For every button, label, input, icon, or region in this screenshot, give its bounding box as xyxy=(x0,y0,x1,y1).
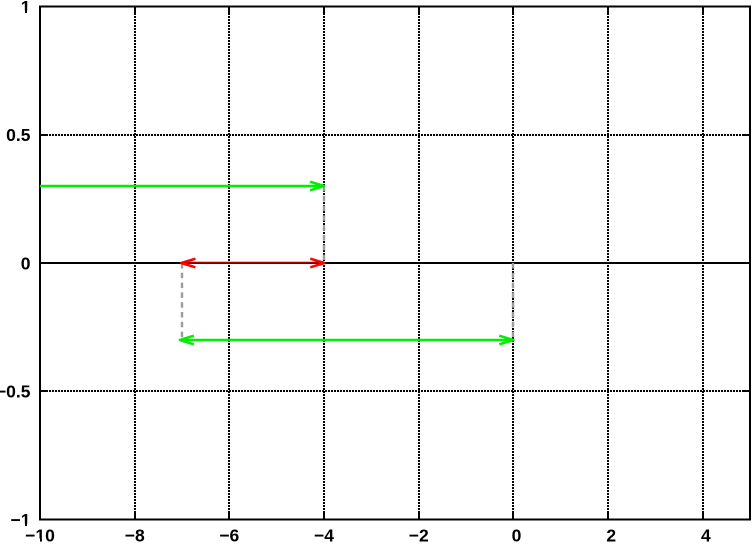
svg-text:−10: −10 xyxy=(25,525,55,542)
svg-text:−2: −2 xyxy=(409,525,429,542)
svg-text:0: 0 xyxy=(21,253,31,273)
svg-text:−4: −4 xyxy=(314,525,334,542)
svg-text:0: 0 xyxy=(512,525,522,542)
svg-text:1: 1 xyxy=(21,0,31,17)
svg-text:−8: −8 xyxy=(125,525,145,542)
svg-text:−0.5: −0.5 xyxy=(0,382,31,402)
svg-text:0.5: 0.5 xyxy=(6,125,31,145)
svg-text:4: 4 xyxy=(701,525,711,542)
svg-text:−6: −6 xyxy=(219,525,239,542)
svg-text:2: 2 xyxy=(606,525,616,542)
